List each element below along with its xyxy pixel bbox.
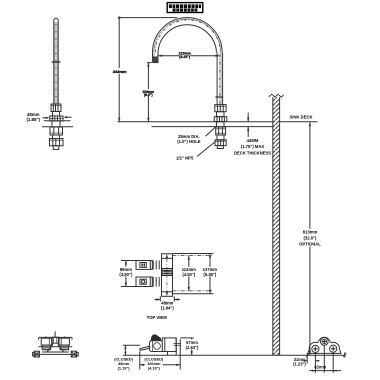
shank lock nut bbox=[215, 140, 226, 146]
dim 89mm handles bbox=[121, 261, 136, 287]
svg-text:(8.25"): (8.25") bbox=[179, 55, 190, 59]
dim C reach line bbox=[158, 55, 219, 57]
side view bonnet bbox=[149, 341, 162, 352]
top view cold handle bbox=[136, 277, 159, 287]
front view pedestal bbox=[42, 343, 69, 352]
spout outlet tube bbox=[153, 52, 159, 61]
left view lower tube bbox=[53, 135, 60, 139]
back view right inlet circle bbox=[330, 345, 337, 352]
svg-text:(1.23"): (1.23") bbox=[293, 362, 306, 367]
riser centerline bbox=[219, 54, 221, 105]
dim 114mm lines bbox=[173, 256, 214, 291]
riser tube bbox=[217, 52, 223, 104]
svg-text:(32.0"): (32.0") bbox=[304, 236, 318, 241]
sink deck wall hatched bbox=[273, 97, 280, 355]
text: 31mm bbox=[293, 357, 306, 367]
left view width dim arrows bbox=[43, 116, 72, 119]
svg-text:(8.0"): (8.0") bbox=[144, 93, 153, 97]
front view top rail bbox=[39, 337, 72, 339]
gooseneck arc outer bbox=[153, 18, 223, 53]
back view left inlet circle bbox=[312, 345, 319, 352]
left view deck line top bbox=[44, 120, 71, 122]
text: 89mm bbox=[118, 267, 133, 277]
text: 114mm bbox=[181, 267, 197, 277]
top view body centerline arrows bbox=[166, 254, 169, 296]
dim 813mm optional line bbox=[309, 122, 311, 355]
front view bottom rail bbox=[33, 353, 76, 355]
top view hot handle bbox=[136, 261, 159, 270]
shank step bbox=[217, 135, 224, 140]
svg-text:(4.50"): (4.50") bbox=[182, 272, 196, 277]
svg-text:(3.50"): (3.50") bbox=[119, 272, 133, 277]
back view top inlet circle bbox=[320, 338, 328, 346]
top view body bbox=[162, 254, 173, 296]
svg-text:(1.75") MAX: (1.75") MAX bbox=[241, 144, 265, 149]
svg-text:SINK DECK: SINK DECK bbox=[290, 115, 313, 120]
front view left bonnet bbox=[42, 345, 50, 350]
top view label plate bbox=[162, 269, 171, 276]
svg-text:343mm: 343mm bbox=[113, 69, 127, 74]
side view wall flange bbox=[176, 338, 180, 355]
deck top line bbox=[118, 121, 273, 123]
front view right bonnet bbox=[60, 345, 68, 350]
text: dim A bbox=[113, 68, 127, 74]
front view left valve body bbox=[41, 336, 51, 345]
svg-text:(5.38"): (5.38") bbox=[203, 272, 217, 277]
front view spout hub bbox=[52, 337, 58, 343]
riser coupling nut bbox=[215, 105, 226, 112]
svg-text:62mm: 62mm bbox=[314, 365, 326, 370]
dim closed 106mm bbox=[140, 351, 180, 369]
shank through deck bbox=[217, 122, 225, 127]
svg-text:25mm DIA.: 25mm DIA. bbox=[178, 134, 200, 139]
dim B outlet height line bbox=[147, 63, 152, 122]
deck bottom line bbox=[152, 126, 273, 128]
svg-text:(2.63"): (2.63") bbox=[186, 345, 199, 350]
front view bracket bar bbox=[38, 346, 72, 348]
gooseneck arc centerline bbox=[155, 20, 220, 53]
shank tip bbox=[217, 146, 223, 149]
dim A overall height line bbox=[118, 17, 177, 122]
shank hex below deck bbox=[216, 127, 226, 135]
left view escutcheon bbox=[50, 116, 63, 121]
svg-text:(1.94"): (1.94") bbox=[161, 305, 175, 310]
riser joint bbox=[215, 96, 223, 98]
text: 67mm bbox=[185, 339, 200, 349]
svg-text:(1.19"): (1.19") bbox=[118, 365, 131, 370]
text: dim B bbox=[142, 89, 154, 97]
gooseneck arc wall lines bbox=[154, 19, 221, 52]
left view tube joint bbox=[52, 61, 61, 63]
svg-text:TOP VIEW: TOP VIEW bbox=[147, 315, 167, 320]
wall top break bbox=[269, 94, 284, 97]
svg-text:OPTIONAL: OPTIONAL bbox=[299, 242, 321, 247]
riser neck bbox=[217, 112, 225, 117]
left view coupling nut bbox=[51, 104, 61, 112]
text: dim C bbox=[179, 51, 191, 59]
left view: spout shank tube bbox=[54, 18, 58, 104]
deck thickness dim bbox=[247, 113, 249, 138]
text: 48mm bbox=[161, 300, 175, 310]
text: 25mm hole bbox=[177, 134, 201, 144]
left view deck line bottom bbox=[42, 126, 73, 128]
text: title box simulated dense label bbox=[169, 4, 201, 11]
title box bbox=[167, 3, 203, 13]
svg-text:(1.0") HOLE: (1.0") HOLE bbox=[177, 139, 201, 144]
front view left supply fitting bbox=[33, 351, 40, 357]
gooseneck arc inner bbox=[158, 25, 217, 53]
front view right supply fitting bbox=[71, 351, 78, 357]
dim 67mm body height bbox=[180, 338, 194, 355]
back view outline trefoil bbox=[308, 337, 341, 353]
dim closed 30mm bbox=[123, 345, 140, 355]
left view lock nut bbox=[50, 139, 64, 146]
text: 813mm optional bbox=[299, 229, 321, 247]
dim 62mm bbox=[309, 370, 341, 372]
svg-text:813mm: 813mm bbox=[303, 230, 318, 235]
bottom baseline bbox=[123, 354, 346, 356]
riser escutcheon bbox=[214, 117, 227, 122]
text: 44mm deck thickness bbox=[234, 138, 271, 156]
baseline end ticks bbox=[306, 352, 346, 357]
dim 137mm lines bbox=[173, 254, 214, 294]
leader 1/2 NPS bbox=[197, 142, 215, 157]
back view extension lines bbox=[307, 345, 333, 373]
text: closed 30mm bbox=[114, 357, 134, 371]
leader 25mm hole bbox=[206, 127, 216, 136]
side view spout down-left bbox=[140, 346, 150, 350]
svg-text:44MM: 44MM bbox=[247, 138, 259, 143]
front view right valve body bbox=[59, 336, 69, 345]
svg-text:1/2" NPS: 1/2" NPS bbox=[176, 156, 194, 161]
left view neck bbox=[53, 112, 60, 117]
deck line right of wall bbox=[280, 121, 318, 123]
dim 48mm body bbox=[155, 296, 181, 301]
svg-text:DECK THICKNESS: DECK THICKNESS bbox=[234, 150, 271, 155]
left view tip bbox=[53, 146, 59, 150]
side view lever knob bbox=[150, 334, 162, 340]
svg-text:(1.88"): (1.88") bbox=[26, 117, 40, 122]
front view center stem line bbox=[54, 331, 56, 337]
side view body bbox=[162, 338, 181, 355]
dim 31mm bbox=[303, 360, 319, 362]
left view tube centerline bbox=[55, 24, 57, 104]
svg-text:(4.19"): (4.19") bbox=[148, 365, 161, 370]
text: closed 106mm bbox=[144, 357, 164, 371]
left view hex shank bbox=[50, 127, 63, 135]
text: 137mm bbox=[202, 267, 218, 277]
text: 48mm shank width bbox=[26, 112, 40, 122]
spout outlet end bbox=[152, 56, 159, 62]
left view neck below deck bbox=[52, 121, 60, 127]
